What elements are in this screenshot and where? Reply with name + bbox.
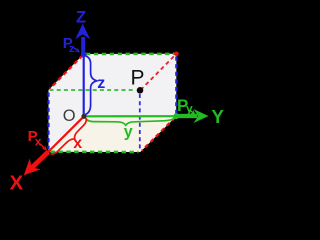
svg-text:x: x: [35, 135, 42, 149]
Y axis arrowhead: [194, 109, 209, 123]
brace x (red curly brace along O-D): [51, 118, 91, 158]
dot Pz on Z axis (B): [81, 51, 87, 57]
Px label arrow: [40, 144, 44, 148]
X axis arrowhead: [18, 159, 40, 181]
brace z (blue curly brace along O-B): [85, 56, 97, 115]
edge D-E bottom front (green dashed): [51, 150, 139, 153]
svg-text:Y: Y: [212, 106, 225, 127]
edge F-D left front (blue dashed): [47, 93, 49, 150]
edge F-G top front (green dashed): [50, 89, 136, 91]
bottom xy-plane quad (cream fill): [49, 116, 177, 152]
svg-text:z: z: [97, 75, 105, 92]
svg-text:z: z: [69, 43, 75, 55]
X axis outer shaft: [32, 152, 49, 168]
svg-text:y: y: [124, 124, 133, 141]
edge B-C top back (green dashed): [86, 53, 175, 56]
Z axis inner segment O-B: [83, 54, 85, 116]
brace y (green curly brace along O-A): [86, 117, 176, 125]
svg-text:X: X: [10, 171, 24, 194]
Z axis outer shaft: [81, 37, 85, 54]
Y axis inner segment O-A: [84, 115, 176, 117]
Z axis arrowhead: [75, 24, 90, 40]
box silhouette (faces of cuboid, light fill): [49, 54, 177, 152]
svg-text:y: y: [186, 101, 193, 115]
dot origin O: [81, 114, 86, 119]
svg-text:O: O: [63, 107, 76, 125]
svg-text:P: P: [131, 67, 145, 90]
dot Py on Y axis (A): [173, 113, 179, 119]
Pz label arrow: [74, 48, 77, 50]
edge B-F upper-left diagonal (red dashed): [50, 56, 83, 89]
Y axis outer shaft: [176, 114, 197, 118]
dot corner C (red): [174, 52, 179, 57]
edge C-G diagonal to P (red dashed): [142, 56, 174, 88]
dot point P: [137, 87, 144, 94]
edge G-E below P (blue dashed): [139, 94, 141, 150]
Py label arrow: [189, 110, 193, 113]
X axis inner segment O-D: [49, 116, 85, 151]
edge C-A right back (blue dashed): [175, 57, 177, 114]
svg-text:x: x: [73, 135, 82, 152]
svg-text:Z: Z: [76, 8, 86, 26]
edge A-E lower-right diagonal (red dashed): [142, 118, 175, 151]
